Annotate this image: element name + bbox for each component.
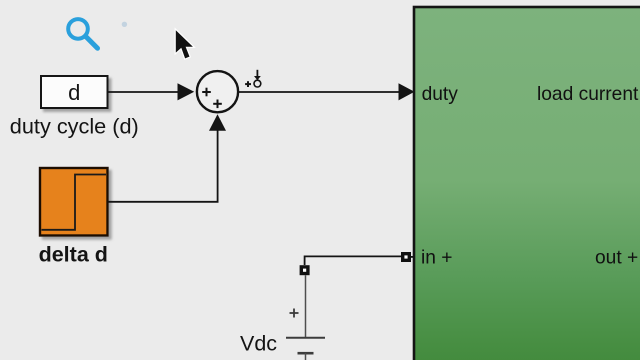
mouse cursor — [176, 30, 193, 58]
svg-text:delta d: delta d — [39, 242, 108, 266]
step block delta d — [40, 168, 108, 236]
battery Vdc symbol — [286, 309, 325, 360]
arrowhead into duty port — [399, 83, 415, 100]
zoom/magnifier icon — [68, 19, 97, 48]
subsystem block (converter) — [414, 7, 640, 360]
arrowhead up into sum — [209, 114, 226, 131]
connect hint icon (+ and port circle with down arrow) — [245, 70, 261, 87]
svg-text:load current: load current — [537, 84, 639, 105]
svg-text:in +: in + — [421, 248, 452, 269]
connection square (battery + node) — [300, 265, 310, 275]
wire sum to subsystem duty port — [238, 91, 400, 93]
sum block — [197, 71, 238, 112]
svg-text:d: d — [68, 80, 80, 105]
faint dot — [122, 22, 127, 27]
wire battery to node — [305, 275, 307, 337]
arrowhead into sum — [178, 83, 195, 100]
svg-text:duty: duty — [422, 84, 459, 105]
constant block d — [41, 76, 108, 108]
short wire into in+ port — [406, 256, 414, 258]
connection square (in+ node) — [401, 252, 411, 262]
wire step block to sum bottom — [108, 130, 218, 202]
wire from d to sum — [108, 91, 180, 93]
svg-text:duty cycle (d): duty cycle (d) — [10, 114, 139, 139]
physical wire corner to in+ — [305, 256, 406, 265]
svg-text:Vdc: Vdc — [240, 332, 277, 356]
svg-text:out +: out + — [595, 248, 638, 269]
